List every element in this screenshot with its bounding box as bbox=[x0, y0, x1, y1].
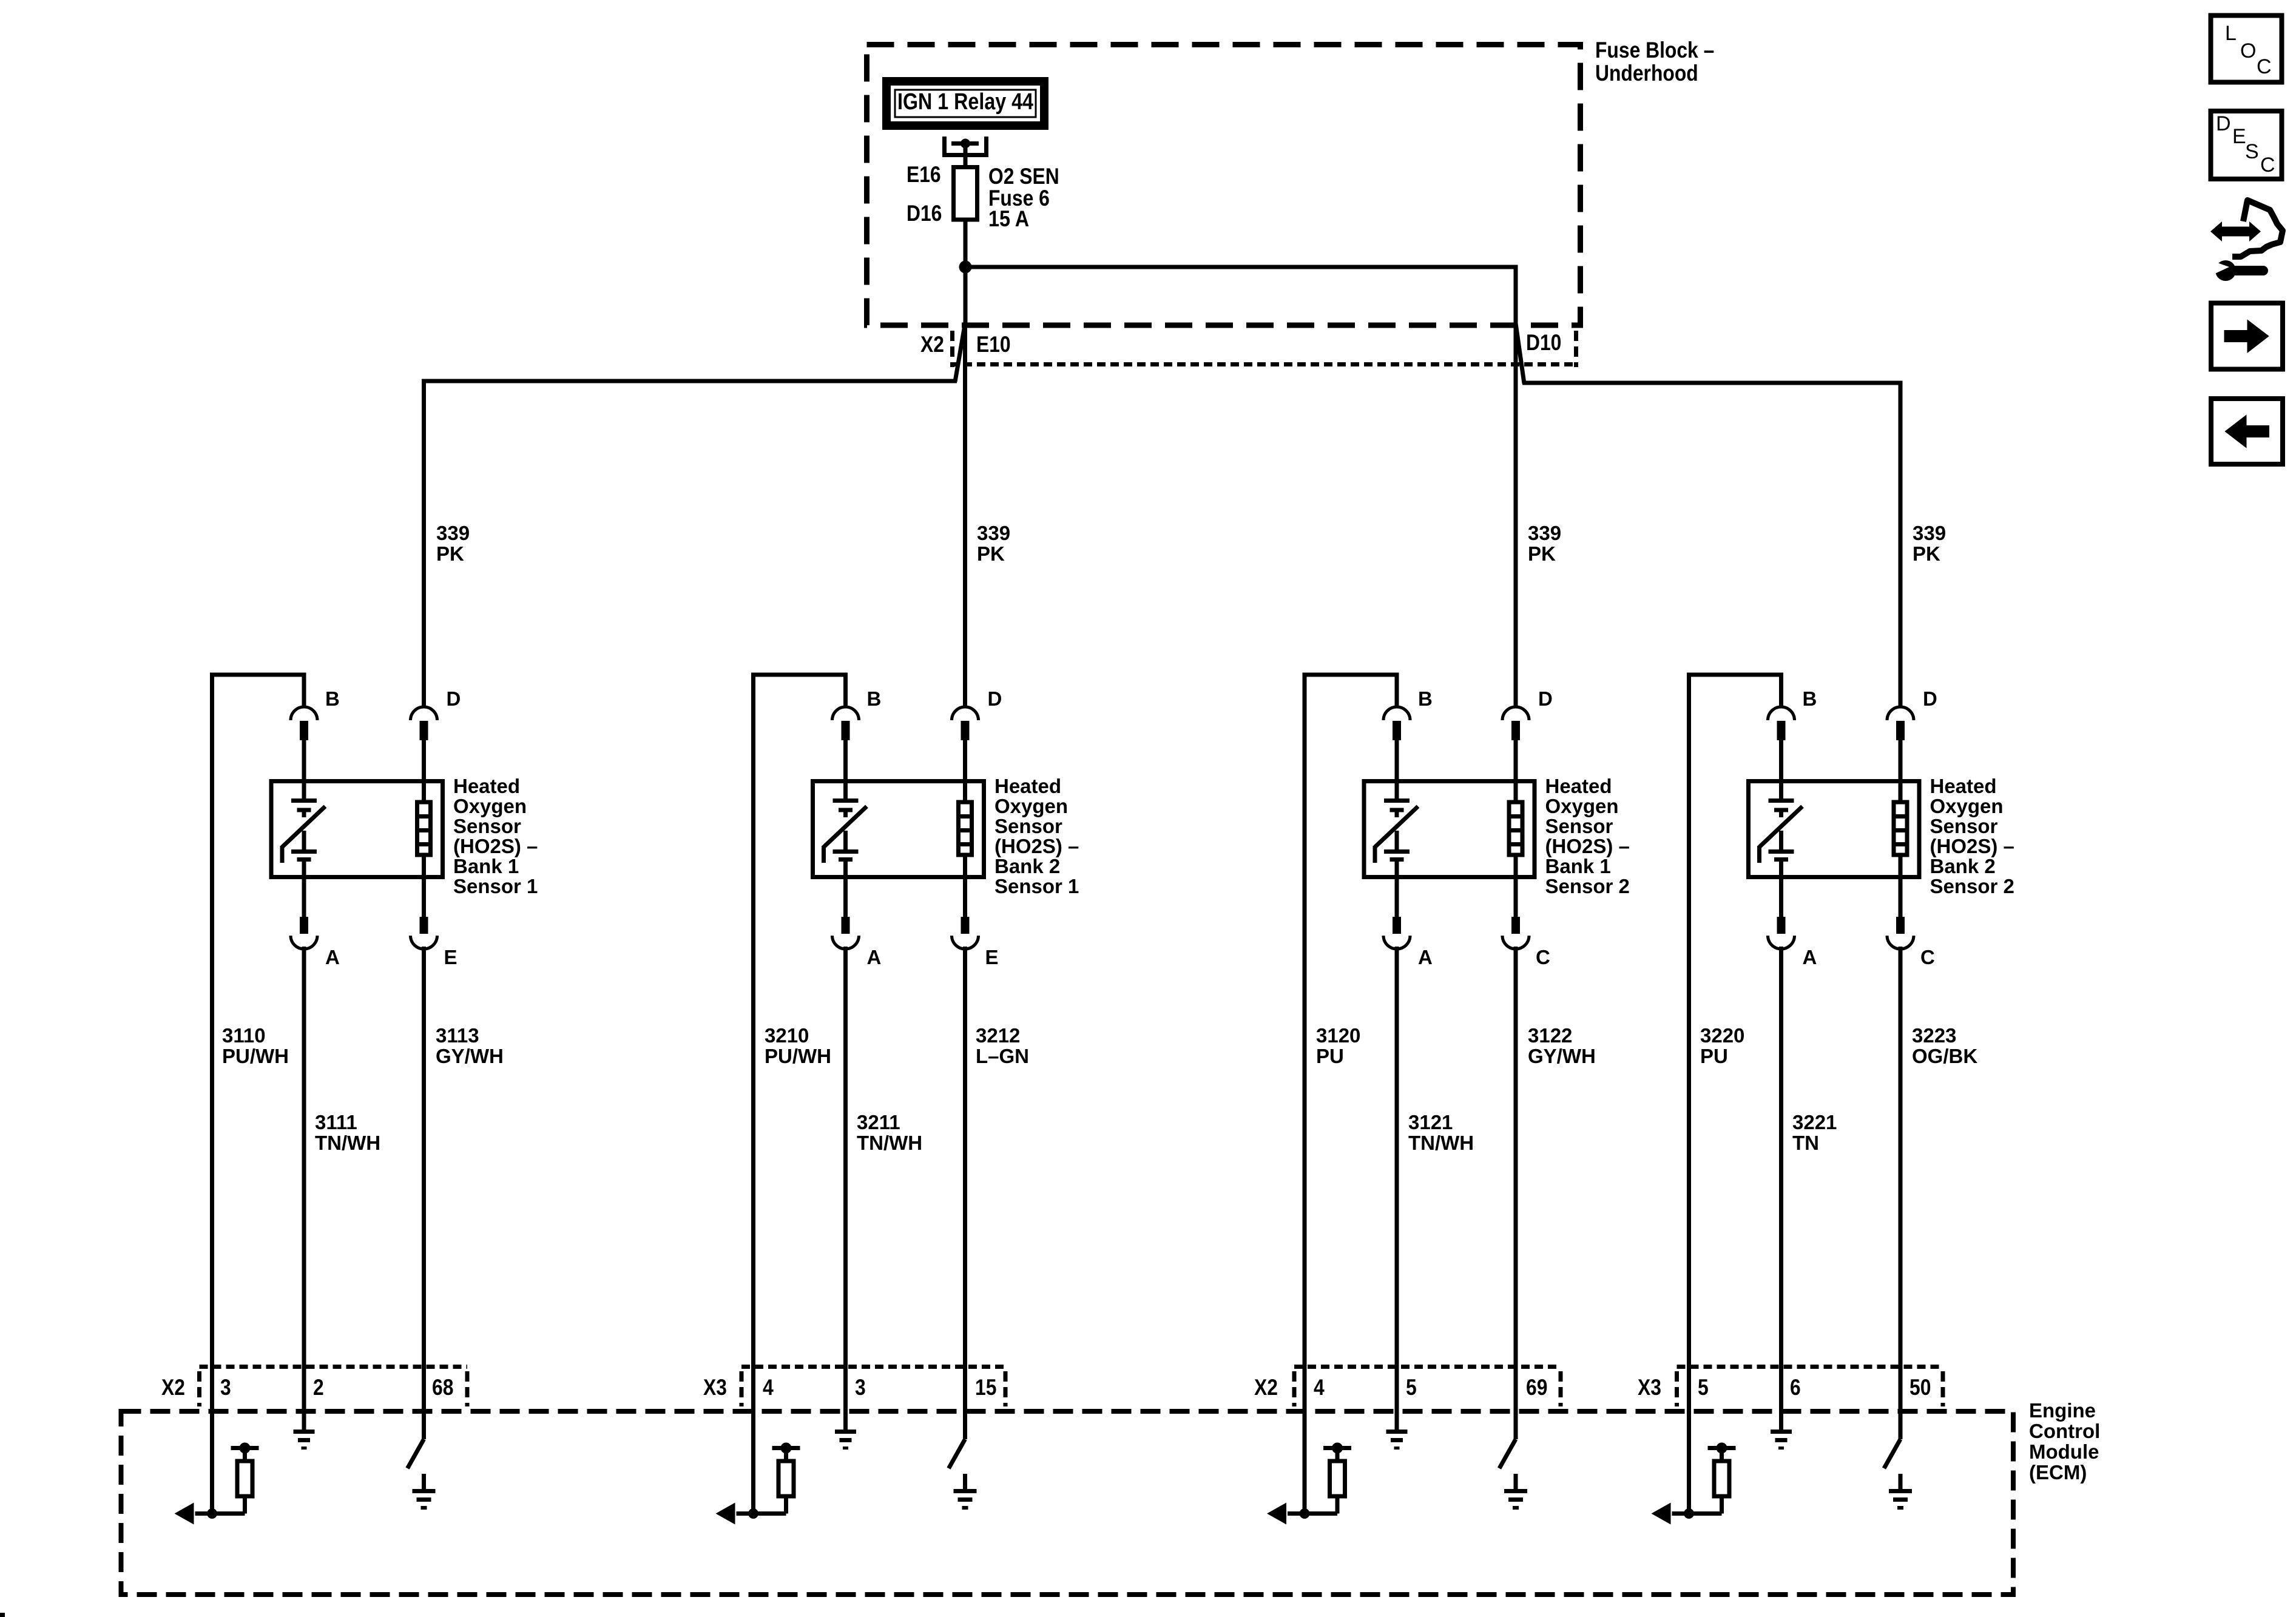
label Heated Oxygen Sensor 3 bbox=[1545, 775, 1630, 897]
svg-text:339: 339 bbox=[977, 522, 1010, 544]
wire D10 pass-through slant bbox=[1516, 323, 1524, 383]
svg-text:A: A bbox=[1418, 946, 1433, 968]
svg-text:Engine: Engine bbox=[2029, 1399, 2096, 1422]
connector pin E cavity bbox=[952, 879, 979, 1414]
svg-text:3120: 3120 bbox=[1316, 1024, 1360, 1047]
connector pin B cavity bbox=[1383, 707, 1410, 781]
svg-text:Sensor 2: Sensor 2 bbox=[1930, 875, 2014, 897]
ground under switch bbox=[1504, 1474, 1527, 1510]
svg-text:(ECM): (ECM) bbox=[2029, 1461, 2087, 1484]
svg-text:E16: E16 bbox=[907, 162, 941, 187]
svg-text:TN/WH: TN/WH bbox=[857, 1132, 922, 1154]
svg-text:PK: PK bbox=[436, 542, 464, 565]
svg-text:D: D bbox=[1538, 687, 1553, 710]
label wire 3220 PU bbox=[1700, 1024, 1744, 1067]
label 339 PK bbox=[436, 522, 470, 565]
wire heater control bbox=[1899, 1409, 1903, 1439]
connector pin A cavity bbox=[1768, 879, 1795, 1414]
svg-text:3111: 3111 bbox=[315, 1111, 357, 1133]
label wire 3120 PU bbox=[1316, 1024, 1360, 1067]
signal arrow in ECM bbox=[1652, 1503, 1671, 1525]
HO2S sensor box 2 bbox=[813, 781, 984, 877]
sensing element cell sensor 2 bbox=[833, 781, 859, 877]
svg-text:X3: X3 bbox=[703, 1375, 727, 1400]
svg-text:GY/WH: GY/WH bbox=[1528, 1045, 1596, 1067]
connector pin C cavity bbox=[1887, 879, 1914, 1414]
svg-text:C: C bbox=[1536, 946, 1550, 968]
svg-text:D10: D10 bbox=[1526, 330, 1561, 355]
ground in ECM bbox=[835, 1430, 856, 1450]
connector strip X2 E10 D10 dotted line bbox=[950, 362, 1578, 366]
label wire 3111 TN/WH bbox=[315, 1111, 380, 1154]
svg-text:D: D bbox=[988, 687, 1002, 710]
ECM dashed box bbox=[121, 1411, 2014, 1595]
icon box arrow left bbox=[2211, 399, 2283, 464]
variable slash sensor 1 bbox=[282, 806, 325, 863]
svg-text:Underhood: Underhood bbox=[1595, 61, 1698, 86]
svg-text:Oxygen: Oxygen bbox=[1930, 795, 2004, 817]
svg-text:PK: PK bbox=[1913, 542, 1940, 565]
wire feed U branch sensor 1 bbox=[212, 673, 305, 1514]
connector pin E cavity bbox=[411, 879, 437, 1414]
icon box LOC bbox=[2211, 16, 2282, 83]
icon hand with arrow and wrench bbox=[2210, 200, 2283, 281]
svg-text:Bank 2: Bank 2 bbox=[994, 855, 1060, 877]
relay K44 box IGN 1 Relay 44 bbox=[886, 81, 1044, 126]
svg-text:D: D bbox=[1923, 687, 1937, 710]
label wire 3121 TN/WH bbox=[1408, 1111, 1474, 1154]
icon box arrow right bbox=[2211, 303, 2283, 370]
svg-text:Sensor 1: Sensor 1 bbox=[994, 875, 1079, 897]
connector pin A cavity bbox=[832, 879, 859, 1414]
svg-text:Sensor: Sensor bbox=[1545, 815, 1613, 837]
svg-text:69: 69 bbox=[1526, 1375, 1547, 1400]
resistor pull-up in ECM bbox=[195, 1443, 259, 1514]
wire right horizontal to branch4 bbox=[1522, 381, 1900, 707]
svg-text:(HO2S) –: (HO2S) – bbox=[1930, 835, 2014, 857]
label Fuse Block - Underhood bbox=[1595, 38, 1714, 86]
svg-text:3223: 3223 bbox=[1912, 1024, 1956, 1047]
ECM connector strip X2 bbox=[200, 1367, 468, 1407]
svg-text:3110: 3110 bbox=[222, 1024, 266, 1047]
svg-text:(HO2S) –: (HO2S) – bbox=[994, 835, 1079, 857]
svg-text:5: 5 bbox=[1698, 1375, 1709, 1400]
HO2S sensor box 1 bbox=[271, 781, 443, 877]
ECM connector strip X3 bbox=[741, 1367, 1005, 1407]
svg-text:E: E bbox=[985, 946, 999, 968]
svg-text:L–GN: L–GN bbox=[976, 1045, 1029, 1067]
svg-text:15: 15 bbox=[975, 1375, 996, 1400]
wire branch3 vertical bbox=[1514, 323, 1518, 707]
svg-text:3211: 3211 bbox=[857, 1111, 900, 1133]
label wire 3122 GY/WH bbox=[1528, 1024, 1596, 1067]
svg-text:3220: 3220 bbox=[1700, 1024, 1744, 1047]
connector pin B cavity bbox=[832, 707, 859, 781]
HO2S sensor box 3 bbox=[1364, 781, 1535, 877]
label 339 PK bbox=[977, 522, 1010, 565]
node junction resistor bbox=[1684, 1508, 1694, 1519]
svg-text:B: B bbox=[867, 687, 882, 710]
label wire 3210 PU/WH bbox=[765, 1024, 831, 1067]
svg-text:4: 4 bbox=[763, 1375, 774, 1400]
tick left X2 bbox=[950, 331, 954, 367]
label wire 3223 OG/BK bbox=[1912, 1024, 1977, 1067]
wire low reference bbox=[1395, 1409, 1399, 1430]
svg-text:339: 339 bbox=[1528, 522, 1561, 544]
wire low reference bbox=[1779, 1409, 1783, 1430]
svg-text:Module: Module bbox=[2029, 1440, 2099, 1463]
svg-text:4: 4 bbox=[1314, 1375, 1325, 1400]
svg-text:X3: X3 bbox=[1638, 1375, 1661, 1400]
connector pin D cavity bbox=[952, 707, 979, 781]
label Heated Oxygen Sensor 2 bbox=[994, 775, 1079, 897]
svg-text:(HO2S) –: (HO2S) – bbox=[453, 835, 538, 857]
switch driver in ECM bbox=[1884, 1439, 1900, 1468]
connector pin B cavity bbox=[1768, 707, 1795, 781]
svg-text:O2 SEN: O2 SEN bbox=[988, 164, 1059, 189]
svg-text:PK: PK bbox=[1528, 542, 1556, 565]
svg-text:A: A bbox=[1803, 946, 1817, 968]
wire heater control bbox=[963, 1409, 967, 1439]
svg-text:OG/BK: OG/BK bbox=[1912, 1045, 1977, 1067]
svg-text:IGN 1 Relay 44: IGN 1 Relay 44 bbox=[897, 89, 1033, 115]
ground under switch bbox=[413, 1474, 436, 1510]
svg-text:Heated: Heated bbox=[453, 775, 520, 797]
icon box DESC bbox=[2211, 111, 2282, 179]
svg-text:50: 50 bbox=[1909, 1375, 1931, 1400]
wire feed U branch sensor 3 bbox=[1305, 673, 1397, 1514]
svg-text:Heated: Heated bbox=[1545, 775, 1612, 797]
signal arrow in ECM bbox=[716, 1503, 735, 1525]
svg-text:TN/WH: TN/WH bbox=[1408, 1132, 1474, 1154]
node junction A bbox=[959, 261, 972, 274]
ground in ECM bbox=[1386, 1430, 1408, 1450]
svg-text:Oxygen: Oxygen bbox=[1545, 795, 1619, 817]
svg-text:Bank 1: Bank 1 bbox=[1545, 855, 1611, 877]
svg-text:Sensor 2: Sensor 2 bbox=[1545, 875, 1630, 897]
wire E10 pass-through slant bbox=[955, 323, 965, 382]
svg-text:3: 3 bbox=[220, 1375, 231, 1400]
svg-text:Heated: Heated bbox=[994, 775, 1061, 797]
resistor pull-up in ECM bbox=[737, 1443, 800, 1514]
svg-text:68: 68 bbox=[432, 1375, 453, 1400]
sensing element cell sensor 1 bbox=[291, 781, 317, 877]
svg-text:Oxygen: Oxygen bbox=[453, 795, 527, 817]
svg-text:D: D bbox=[2216, 112, 2231, 135]
svg-text:3212: 3212 bbox=[976, 1024, 1020, 1047]
svg-text:B: B bbox=[1418, 687, 1433, 710]
label wire 3211 TN/WH bbox=[857, 1111, 922, 1154]
svg-text:Oxygen: Oxygen bbox=[994, 795, 1068, 817]
switch driver in ECM bbox=[949, 1439, 965, 1468]
svg-text:A: A bbox=[867, 946, 882, 968]
svg-text:3: 3 bbox=[855, 1375, 866, 1400]
ECM connector strip X3 bbox=[1677, 1367, 1943, 1407]
node junction resistor bbox=[748, 1508, 758, 1519]
connector pin A cavity bbox=[1383, 879, 1410, 1414]
switch driver in ECM bbox=[408, 1439, 424, 1468]
ground under switch bbox=[954, 1474, 977, 1510]
svg-text:C: C bbox=[1920, 946, 1935, 968]
svg-text:B: B bbox=[325, 687, 340, 710]
ground under switch bbox=[1889, 1474, 1912, 1510]
ground in ECM bbox=[1771, 1430, 1792, 1450]
svg-text:PK: PK bbox=[977, 542, 1005, 565]
svg-text:Sensor: Sensor bbox=[994, 815, 1062, 837]
connector pin B cavity bbox=[291, 707, 317, 781]
node junction resistor bbox=[1300, 1508, 1310, 1519]
ECM connector strip X2 bbox=[1294, 1367, 1561, 1407]
label Heated Oxygen Sensor 4 bbox=[1930, 775, 2014, 897]
resistor pull-up in ECM bbox=[1672, 1443, 1736, 1514]
svg-text:L: L bbox=[2225, 22, 2237, 45]
sensing element cell sensor 4 bbox=[1769, 781, 1794, 877]
svg-text:C: C bbox=[2257, 55, 2272, 78]
heater element sensor 2 bbox=[959, 781, 972, 877]
svg-text:3210: 3210 bbox=[765, 1024, 809, 1047]
label wire 3110 PU/WH bbox=[222, 1024, 289, 1067]
svg-text:A: A bbox=[325, 946, 340, 968]
svg-text:PU: PU bbox=[1700, 1045, 1728, 1067]
variable slash sensor 3 bbox=[1375, 806, 1418, 863]
svg-text:3122: 3122 bbox=[1528, 1024, 1572, 1047]
svg-text:B: B bbox=[1803, 687, 1817, 710]
svg-text:S: S bbox=[2245, 140, 2259, 163]
wire low reference bbox=[843, 1409, 848, 1430]
svg-text:339: 339 bbox=[1913, 522, 1946, 544]
label O2 SEN Fuse 6 15 A bbox=[988, 164, 1059, 231]
svg-text:Sensor: Sensor bbox=[453, 815, 521, 837]
svg-text:O: O bbox=[2240, 39, 2256, 62]
svg-text:PU: PU bbox=[1316, 1045, 1344, 1067]
wire left horizontal to branch1 bbox=[424, 379, 957, 707]
wire heater control bbox=[1514, 1409, 1518, 1439]
svg-text:PU/WH: PU/WH bbox=[222, 1045, 289, 1067]
label 339 PK bbox=[1913, 522, 1946, 565]
heater element sensor 3 bbox=[1509, 781, 1522, 877]
connector pin C cavity bbox=[1502, 879, 1529, 1414]
svg-text:6: 6 bbox=[1790, 1375, 1801, 1400]
connector pin A cavity bbox=[291, 879, 317, 1414]
variable slash sensor 4 bbox=[1760, 806, 1803, 863]
svg-text:TN/WH: TN/WH bbox=[315, 1132, 380, 1154]
wire branch2 vertical bbox=[963, 323, 967, 707]
svg-text:X2: X2 bbox=[1254, 1375, 1278, 1400]
wire low reference bbox=[302, 1409, 306, 1430]
svg-text:Control: Control bbox=[2029, 1420, 2100, 1442]
svg-text:15 A: 15 A bbox=[988, 206, 1029, 231]
connector pin D cavity bbox=[1502, 707, 1529, 781]
svg-text:3121: 3121 bbox=[1408, 1111, 1453, 1133]
wire fuse to junction bbox=[964, 220, 968, 323]
svg-text:E: E bbox=[2232, 125, 2246, 148]
ground in ECM bbox=[294, 1430, 315, 1450]
svg-text:Bank 2: Bank 2 bbox=[1930, 855, 1996, 877]
fuse block - underhood dashed box bbox=[867, 45, 1581, 326]
svg-text:C: C bbox=[2260, 154, 2275, 177]
label 339 PK bbox=[1528, 522, 1561, 565]
tick right D10 bbox=[1574, 331, 1578, 367]
svg-text:Sensor 1: Sensor 1 bbox=[453, 875, 538, 897]
wire junction to D10 branch bbox=[965, 265, 1516, 324]
resistor pull-up in ECM bbox=[1288, 1443, 1351, 1514]
label Heated Oxygen Sensor 1 bbox=[453, 775, 538, 897]
svg-text:Sensor: Sensor bbox=[1930, 815, 1998, 837]
svg-text:3113: 3113 bbox=[436, 1024, 479, 1047]
svg-text:PU/WH: PU/WH bbox=[765, 1045, 831, 1067]
signal arrow in ECM bbox=[175, 1503, 194, 1525]
svg-text:X2: X2 bbox=[920, 332, 944, 357]
label wire 3113 GY/WH bbox=[436, 1024, 504, 1067]
HO2S sensor box 4 bbox=[1749, 781, 1920, 877]
svg-text:Heated: Heated bbox=[1930, 775, 1997, 797]
svg-text:339: 339 bbox=[436, 522, 470, 544]
node junction resistor bbox=[207, 1508, 217, 1519]
relay contact switch 44 bbox=[942, 137, 988, 165]
heater element sensor 1 bbox=[417, 781, 431, 877]
variable slash sensor 2 bbox=[824, 806, 867, 863]
svg-text:5: 5 bbox=[1406, 1375, 1417, 1400]
wire feed U branch sensor 2 bbox=[754, 673, 846, 1514]
svg-text:E: E bbox=[444, 946, 458, 968]
switch driver in ECM bbox=[1499, 1439, 1516, 1468]
sensing element cell sensor 3 bbox=[1384, 781, 1410, 877]
page mark bbox=[0, 1613, 5, 1617]
fuse F6 O2 SEN 15A bbox=[954, 167, 977, 220]
svg-text:2: 2 bbox=[313, 1375, 324, 1400]
svg-text:E10: E10 bbox=[976, 332, 1011, 357]
svg-text:X2: X2 bbox=[161, 1375, 185, 1400]
label Engine Control Module (ECM) bbox=[2029, 1399, 2100, 1484]
connector pin D cavity bbox=[1887, 707, 1914, 781]
heater element sensor 4 bbox=[1894, 781, 1907, 877]
svg-text:3221: 3221 bbox=[1792, 1111, 1837, 1133]
svg-text:D16: D16 bbox=[907, 201, 942, 226]
label wire 3221 TN bbox=[1792, 1111, 1837, 1154]
signal arrow in ECM bbox=[1267, 1503, 1286, 1525]
svg-text:Bank 1: Bank 1 bbox=[453, 855, 519, 877]
label wire 3212 L–GN bbox=[976, 1024, 1029, 1067]
wire heater control bbox=[422, 1409, 426, 1439]
wire feed U branch sensor 4 bbox=[1689, 673, 1781, 1514]
svg-text:TN: TN bbox=[1792, 1132, 1819, 1154]
connector pin D cavity bbox=[411, 707, 437, 781]
svg-text:Fuse Block –: Fuse Block – bbox=[1595, 38, 1714, 62]
svg-text:D: D bbox=[447, 687, 461, 710]
svg-text:(HO2S) –: (HO2S) – bbox=[1545, 835, 1630, 857]
svg-text:GY/WH: GY/WH bbox=[436, 1045, 504, 1067]
